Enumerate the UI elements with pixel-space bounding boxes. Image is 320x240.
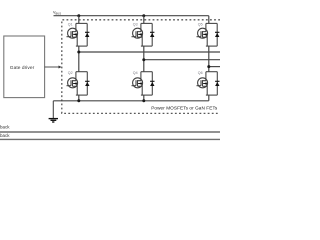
transistor Q2	[67, 72, 90, 95]
svg-text:Gate driver: Gate driver	[10, 65, 35, 71]
svg-text:Q2: Q2	[68, 71, 73, 75]
junction dot phase C	[207, 65, 210, 68]
wire: leg2 vertical	[143, 16, 145, 101]
svg-text:Q3: Q3	[133, 23, 138, 27]
wire: gate drive arrow	[45, 66, 60, 68]
junction dot bottom leg2	[142, 99, 145, 102]
junction dot bus leg1	[77, 14, 80, 17]
transistor Q6	[197, 72, 220, 95]
svg-text:dback: dback	[0, 124, 10, 129]
svg-text:Q5: Q5	[198, 23, 203, 27]
wire: VBUS top bus	[54, 15, 209, 17]
transistor Q5	[197, 23, 220, 46]
wire: leg3 vertical	[208, 16, 210, 101]
wire: voltage feedback line	[0, 131, 220, 133]
junction dot bottom leg1	[77, 99, 80, 102]
wire: phase A output	[79, 51, 220, 53]
svg-text:Q6: Q6	[198, 71, 203, 75]
wire: phase C output	[209, 66, 220, 68]
svg-text:Power MOSFETs or GaN FETs: Power MOSFETs or GaN FETs	[151, 105, 218, 110]
wire: leg1 vertical	[78, 16, 80, 101]
junction dot bus leg2	[142, 14, 145, 17]
transistor Q4	[132, 72, 155, 95]
wire: bottom bus	[53, 100, 209, 102]
wire: phase B output	[144, 59, 220, 61]
svg-text:dback: dback	[0, 133, 10, 138]
svg-text:Q1: Q1	[68, 23, 73, 27]
transistor Q1	[67, 23, 90, 46]
wire: current feedback line	[0, 138, 220, 140]
svg-text:Q4: Q4	[133, 71, 138, 75]
transistor Q3	[132, 23, 155, 46]
dashed box: power stage enclosure	[62, 20, 220, 114]
junction dot phase B	[142, 58, 145, 61]
ground	[52, 101, 54, 119]
gate driver block	[4, 36, 45, 98]
junction dot phase A	[77, 51, 80, 54]
svg-text:VBUS: VBUS	[53, 10, 61, 15]
